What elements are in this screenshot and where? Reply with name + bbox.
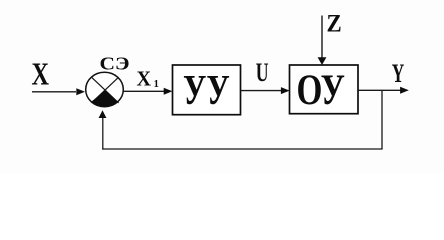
wire: УУ to ОУ (241, 87, 290, 94)
wire: feedback bottom run (102, 148, 382, 150)
wire: X input arrow into summing element (32, 88, 85, 95)
svg-text:U: U (256, 58, 269, 87)
wire: summing element to УУ block (124, 88, 173, 95)
wire: disturbance Z arrow into ОУ top (318, 16, 327, 66)
block ОУ (controlled object) (290, 65, 359, 114)
wire: feedback branch down from output node (381, 90, 383, 149)
block УУ (controller) (173, 65, 241, 115)
label СЭ (100, 54, 130, 74)
label U (256, 58, 269, 87)
svg-text:УУ: УУ (183, 67, 230, 114)
label Z (327, 11, 342, 38)
label Y (392, 58, 405, 88)
svg-text:X: X (137, 67, 152, 91)
svg-text:ОУ: ОУ (297, 66, 346, 114)
svg-text:Y: Y (392, 58, 405, 88)
wire: output Y arrow from ОУ (358, 87, 409, 94)
label X1 (137, 67, 159, 91)
svg-text:Z: Z (327, 11, 342, 38)
svg-text:СЭ: СЭ (100, 54, 130, 74)
svg-text:X: X (32, 55, 50, 91)
wire: feedback rise with arrow into summing element (99, 110, 107, 149)
svg-text:1: 1 (154, 79, 159, 90)
summing element СЭ (circle with cross, lower sector filled) (86, 72, 124, 106)
label X (32, 55, 50, 91)
